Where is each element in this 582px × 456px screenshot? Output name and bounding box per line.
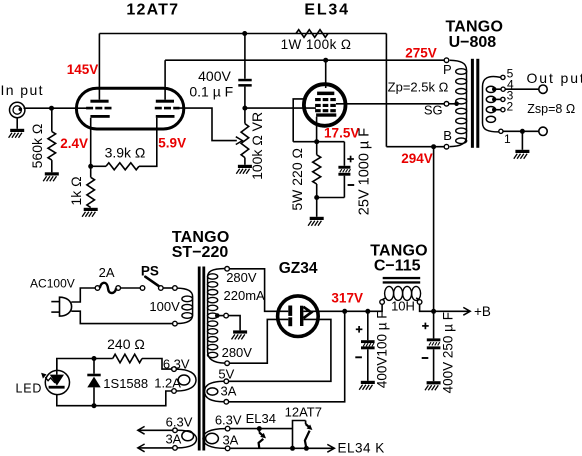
svg-text:294V: 294V (401, 151, 433, 166)
svg-text:1S1588: 1S1588 (103, 376, 148, 391)
wire LED circuit bottom (57, 391, 172, 406)
capacitor C4 400V 250µF (427, 338, 441, 349)
wire 240 to winding (142, 359, 172, 370)
svg-text:1W 100k Ω: 1W 100k Ω (281, 37, 352, 52)
ground under 100uF (359, 381, 375, 390)
node diode top (92, 356, 97, 361)
svg-text:5.9V: 5.9V (158, 135, 186, 150)
wire tap1 to output (503, 130, 539, 132)
terminal primary bottom (173, 321, 178, 326)
grid V1b (155, 107, 180, 110)
GZ34 filament bar (288, 306, 292, 316)
svg-text:0.1 µ F: 0.1 µ F (189, 84, 233, 100)
svg-text:240 Ω: 240 Ω (107, 336, 145, 352)
terminal 6.3V(1.2A) top (172, 367, 177, 372)
svg-text:In put: In put (1, 82, 44, 98)
wire cathode node line (293, 141, 344, 143)
node 317V / 5V return (342, 309, 347, 314)
svg-text:3A: 3A (165, 432, 181, 447)
resistor R5 240Ω (113, 354, 142, 363)
wire choke left lead (368, 304, 382, 311)
wire switch to primary (163, 287, 173, 289)
resistor R4 5W 220Ω cathode (313, 155, 321, 184)
terminal tap 3 (501, 97, 505, 101)
svg-text:560k Ω: 560k Ω (29, 124, 45, 169)
svg-text:3.9k Ω: 3.9k Ω (105, 145, 146, 161)
wire tap2 stub (496, 109, 501, 111)
wire B+ vertical 294V (433, 147, 435, 312)
svg-text:10H: 10H (391, 298, 415, 313)
wire secondary ground stem (521, 131, 523, 150)
node SG tap (454, 101, 459, 106)
plate V2 (317, 92, 334, 96)
plus sign C3 (356, 328, 363, 330)
tube 12AT7 V1 envelope (76, 88, 183, 129)
svg-text:145V: 145V (67, 62, 99, 77)
wire plug to fuse (71, 288, 95, 302)
ground HV CT (232, 330, 248, 339)
node EL34 plate on 275V rail (323, 58, 328, 63)
EL34 heater arrow (259, 430, 266, 449)
svg-text:280V: 280V (222, 345, 253, 360)
PT core (198, 267, 205, 451)
wire tap4 to output (505, 88, 539, 90)
terminal HV CT (224, 313, 229, 318)
wire HV bottom to GZ34 (229, 319, 288, 363)
wire 100uF top lead (367, 311, 369, 340)
svg-text:Zsp=8 Ω: Zsp=8 Ω (527, 102, 575, 116)
wire 1000uF top lead (343, 142, 345, 166)
ground under jack (9, 129, 25, 138)
resistor R3 1W 100kΩ plate load (296, 30, 328, 38)
wire cap bottom lead (244, 87, 246, 109)
fuse F1 2A (95, 283, 120, 293)
terminal 6.3V(3A R) top (225, 426, 230, 431)
wire 560k top lead (51, 108, 53, 131)
plate V1b (156, 100, 174, 103)
wire input line (24, 107, 89, 109)
wire plug to primary bottom (71, 311, 172, 323)
svg-text:6.3V: 6.3V (215, 413, 242, 428)
svg-text:ST−220: ST−220 (172, 244, 229, 261)
LED D2 (45, 360, 69, 395)
wire CT to ground (228, 316, 240, 331)
wire 1k top lead (90, 166, 92, 177)
terminal choke left (380, 300, 385, 305)
wire LED circuit top (57, 359, 113, 371)
svg-text:SG: SG (424, 102, 443, 117)
svg-text:100k Ω VR: 100k Ω VR (249, 112, 265, 180)
svg-text:2: 2 (507, 99, 514, 113)
ground secondary (514, 150, 530, 159)
svg-text:5V: 5V (218, 367, 234, 382)
12AT7 heater arrow (305, 421, 313, 449)
svg-text:LED: LED (16, 382, 43, 396)
terminal SG (444, 102, 449, 107)
12AT7 heater jumper (293, 421, 306, 449)
svg-text:25V 1000 µ F: 25V 1000 µ F (357, 128, 373, 215)
svg-text:C−115: C−115 (374, 257, 421, 274)
PT 6.3V 3A winding left (177, 430, 196, 448)
svg-text:220mA: 220mA (224, 288, 266, 303)
choke L1 10H winding (382, 286, 421, 300)
terminal tap 2 (501, 108, 505, 112)
PT 6.3V 3A winding right (203, 429, 226, 449)
terminal HV bottom 280V (225, 361, 230, 366)
PT 6.3V 1.2A winding (176, 369, 196, 391)
wire cathode V1a lead (90, 118, 92, 167)
wire fuse to switch (121, 287, 141, 289)
wire 220 bottom lead (316, 184, 318, 198)
plate V1a (90, 100, 108, 103)
wire plate V1b lead (164, 60, 166, 99)
choke core (383, 277, 421, 284)
node input/560k junction (49, 106, 54, 111)
wire heater bottom 6.3V (230, 447, 334, 449)
node tap3 on winding (492, 97, 496, 101)
node secondary ground tap (520, 129, 525, 134)
terminal tap 1 (499, 129, 503, 133)
wire VR top lead (244, 108, 246, 124)
node EL34 heater top (257, 426, 262, 431)
wire SG stub (449, 103, 457, 105)
tube GZ34 V3 envelope (278, 296, 319, 337)
resistor R2 3.9kΩ (106, 163, 139, 170)
svg-text:275V: 275V (405, 45, 437, 60)
wire EL34 plate lead (325, 60, 327, 88)
svg-text:P: P (443, 62, 452, 77)
svg-text:6.3V: 6.3V (166, 414, 193, 429)
wire +B out (434, 310, 470, 312)
arrowhead +B (463, 307, 470, 315)
terminal choke right (417, 300, 422, 305)
node tap4 on winding (492, 87, 496, 91)
minus sign C3 (355, 356, 362, 358)
grid V1a (86, 107, 112, 110)
node coupling tap on rail (242, 31, 247, 36)
svg-text:1k Ω: 1k Ω (68, 176, 84, 205)
OPT secondary winding (483, 76, 501, 131)
ground under 560k (43, 172, 59, 181)
terminal HV top 280V (225, 267, 230, 272)
node 317V / 100uF (365, 309, 370, 314)
GZ34 anode flag (303, 307, 311, 318)
svg-text:+B: +B (474, 304, 491, 319)
wire cap top lead (244, 34, 246, 79)
capacitor C3 400V100µF (361, 340, 375, 349)
capacitor C2 25V 1000µF (338, 166, 350, 176)
node heater bottom right (304, 446, 309, 451)
svg-text:U−808: U−808 (449, 34, 497, 51)
svg-text:3A: 3A (222, 432, 238, 447)
terminal 5V bottom (224, 400, 229, 405)
wire 100uF bottom lead (367, 349, 369, 381)
svg-text:B: B (443, 128, 452, 143)
svg-text:2A: 2A (99, 265, 115, 280)
wire rail corner down to B (385, 34, 387, 147)
wire g1 line to EL34 (245, 107, 316, 109)
wire 3.9k right lead + riser to cathode V1b (139, 118, 157, 167)
output terminal cold (539, 127, 547, 135)
svg-text:PS: PS (141, 263, 159, 278)
svg-text:400V 250 µ F: 400V 250 µ F (441, 312, 456, 393)
ground under VR (236, 165, 252, 174)
node +B junction (431, 309, 436, 314)
svg-text:280V: 280V (226, 270, 257, 285)
svg-text:400V100 µ F: 400V100 µ F (375, 311, 390, 389)
svg-text:EL34: EL34 (246, 411, 276, 426)
svg-text:AC100V: AC100V (30, 277, 75, 291)
svg-text:12AT7: 12AT7 (126, 1, 179, 18)
svg-text:Zp=2.5k Ω: Zp=2.5k Ω (388, 80, 449, 95)
wire g3 tie to cathode (293, 99, 304, 142)
svg-text:1.2A: 1.2A (154, 376, 181, 391)
wire 250uF bottom lead (433, 349, 435, 381)
input jack J1 (10, 102, 25, 117)
svg-text:2.4V: 2.4V (60, 136, 88, 151)
wire 275V rail (165, 59, 444, 61)
resistor 560kΩ grid leak (48, 132, 56, 161)
svg-text:GZ34: GZ34 (279, 260, 318, 277)
capacitor C1 0.1uF 400V (238, 79, 251, 82)
terminal 6.3V(3A R) bottom (225, 446, 230, 451)
node cathode V1a junction (88, 164, 93, 169)
wire 1000uF bottom lead (343, 176, 345, 198)
terminal P (444, 58, 449, 63)
node diode bottom (92, 403, 97, 408)
grid g1 V2 (315, 109, 336, 112)
wire 6.3V L top arrow (139, 429, 173, 431)
svg-text:EL34: EL34 (304, 1, 349, 18)
cathode V1b (156, 115, 175, 118)
ground under 250uF (425, 381, 441, 390)
node HV CT tap (215, 313, 220, 318)
switch PS (140, 277, 163, 291)
wire top rail (plate load to B+) (99, 33, 386, 35)
svg-text:TANGO: TANGO (446, 18, 504, 35)
terminal 5V top (224, 379, 229, 384)
ground under 220 (308, 217, 324, 226)
wire 6.3V L bottom arrow (139, 447, 173, 449)
wire tap3 stub (496, 98, 501, 100)
wire plate V1a lead (98, 34, 100, 100)
PT primary winding (177, 288, 193, 323)
wire EL34 cathode lead (316, 117, 318, 142)
AC plug (51, 297, 71, 316)
terminal 6.3V(1.2A) bottom (172, 389, 177, 394)
diode D1 1S1588 (87, 359, 100, 406)
tube EL34 V2 envelope (304, 84, 346, 126)
wire HV top to GZ34 (229, 269, 288, 312)
minus sign C4 (422, 357, 429, 359)
terminal tap 4 (501, 87, 505, 91)
svg-text:100V: 100V (149, 299, 180, 314)
wire ground stem (316, 198, 318, 217)
terminal 6.3V(3A L) top (173, 428, 178, 433)
OPT core (471, 59, 479, 148)
terminal B (444, 144, 449, 149)
svg-text:EL34 K: EL34 K (338, 441, 385, 456)
wire jack ground stem (16, 118, 18, 129)
node tap2 on winding (492, 108, 496, 112)
wiper arrowhead (236, 137, 243, 145)
GZ34 anode bar (300, 306, 303, 326)
plus sign C4 (422, 325, 429, 327)
node heater bottom left (290, 446, 295, 451)
svg-text:12AT7: 12AT7 (285, 404, 322, 419)
OPT primary winding (450, 60, 467, 146)
output terminal hot (539, 85, 547, 93)
terminal tap 5 (501, 75, 505, 79)
svg-text:Out put: Out put (527, 70, 582, 86)
node grid junction (242, 106, 247, 111)
wire 5V top to GZ34 filament (229, 319, 331, 381)
wire GZ34 right upper (317V) (303, 310, 369, 312)
wire VR bottom lead (244, 158, 246, 165)
LED arrow (41, 373, 55, 383)
wire SG line (336, 103, 444, 105)
wire cathode bottom line (317, 197, 345, 199)
wire tap4 stub (496, 88, 502, 90)
grid g3 V2 (315, 98, 336, 101)
PT 5V winding (205, 381, 225, 402)
svg-text:5W 220 Ω: 5W 220 Ω (289, 148, 305, 211)
wire B line (386, 146, 444, 148)
wire choke right lead (420, 304, 434, 311)
cathode V2 (316, 113, 336, 116)
node cathode ground junction (314, 195, 319, 200)
cathode V1a (90, 115, 109, 118)
svg-text:17.5V: 17.5V (324, 125, 359, 140)
PT HV winding (208, 269, 225, 364)
wire 560k bottom lead (51, 160, 53, 172)
plus sign C2 (347, 158, 354, 160)
minus sign C2 (348, 184, 355, 186)
node EL34 cathode junction (314, 139, 319, 144)
wire 250uF top lead (433, 311, 435, 338)
terminal 6.3V(3A L) bottom (173, 446, 178, 451)
resistor R1 1kΩ (87, 177, 95, 207)
potentiometer VR 100kΩ (241, 124, 249, 158)
ground under 1k (82, 208, 98, 217)
wire 3.9k left lead (91, 165, 106, 167)
svg-text:400V: 400V (198, 68, 231, 84)
wire 220 top lead (316, 142, 318, 155)
svg-text:1: 1 (504, 132, 511, 146)
arrowhead EL34 K (327, 444, 334, 452)
svg-text:317V: 317V (331, 291, 363, 306)
wire 5V bottom to 317V node (229, 311, 345, 402)
grid g2 V2 (315, 104, 336, 107)
terminal primary top (173, 286, 178, 291)
svg-text:3A: 3A (221, 383, 237, 398)
wire grid V1b to wiper (180, 108, 237, 141)
node B+ tap (431, 144, 436, 149)
wire heater top 6.3V (230, 428, 293, 430)
